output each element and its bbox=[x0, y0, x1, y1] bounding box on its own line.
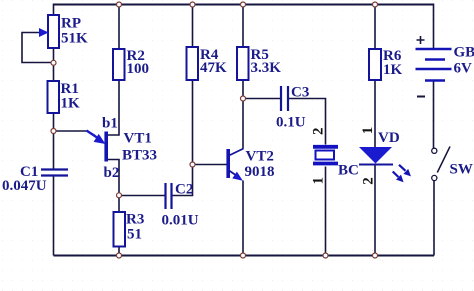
svg-text:6V: 6V bbox=[454, 61, 473, 77]
pin 1 of VD bbox=[360, 127, 376, 135]
wire VT1 b2 down bbox=[107, 160, 119, 196]
node R3 bottom bbox=[117, 253, 122, 258]
wire RP top bbox=[53, 4, 55, 16]
node R4 base junction bbox=[190, 162, 195, 167]
wire node to R3 bbox=[118, 196, 120, 213]
wire node to VT2 collector bbox=[242, 99, 244, 149]
node VD bottom bbox=[373, 253, 378, 258]
svg-text:51K: 51K bbox=[61, 31, 88, 47]
svg-text:0.047U: 0.047U bbox=[2, 178, 47, 194]
svg-text:VT1: VT1 bbox=[124, 131, 152, 147]
pin 1 of BC bbox=[310, 177, 326, 185]
resistor R2 bbox=[113, 48, 149, 80]
svg-text:GB: GB bbox=[454, 45, 474, 61]
svg-text:1K: 1K bbox=[383, 62, 403, 78]
svg-text:47K: 47K bbox=[200, 60, 227, 76]
node R2 top bbox=[117, 2, 122, 7]
wire VT1 emitter bbox=[54, 131, 96, 136]
wire VT1 b1 to R2 bbox=[107, 80, 119, 135]
svg-text:BT33: BT33 bbox=[122, 148, 157, 164]
node RP R1 junction bbox=[51, 60, 56, 65]
wire node to C2 left bbox=[119, 195, 165, 197]
LED VD bbox=[359, 130, 411, 182]
wire switch to bottom rail bbox=[433, 181, 435, 256]
svg-text:1: 1 bbox=[360, 127, 376, 135]
buzzer BC bbox=[313, 147, 359, 179]
svg-text:51: 51 bbox=[127, 227, 142, 243]
svg-text:2: 2 bbox=[360, 177, 376, 185]
wire C2 right to R4 column bbox=[173, 165, 193, 196]
transistor VT2 bbox=[228, 149, 274, 181]
capacitor C3 bbox=[276, 85, 309, 131]
wire R4 bottom to node bbox=[192, 80, 194, 165]
wire R5 top bbox=[242, 5, 244, 50]
wire RP bottom to node bbox=[53, 48, 55, 81]
wire VD to bottom rail bbox=[374, 165, 376, 256]
svg-text:C3: C3 bbox=[291, 85, 309, 101]
resistor R4 bbox=[187, 47, 228, 80]
svg-text:2: 2 bbox=[310, 128, 326, 136]
svg-text:0.01U: 0.01U bbox=[162, 213, 199, 229]
node R4 top bbox=[190, 2, 195, 7]
wire R2 top bbox=[118, 5, 120, 50]
svg-text:0.1U: 0.1U bbox=[276, 115, 306, 131]
switch SW bbox=[432, 147, 473, 181]
svg-text:R3: R3 bbox=[126, 212, 144, 228]
resistor R6 bbox=[369, 48, 403, 80]
wire R5 bottom to node bbox=[242, 80, 244, 99]
capacitor C2 bbox=[162, 182, 199, 229]
resistor R1 bbox=[48, 81, 81, 113]
node R5 collector C3 junction bbox=[241, 96, 246, 101]
svg-text:1: 1 bbox=[310, 177, 326, 185]
resistor R3 bbox=[114, 212, 145, 247]
battery GB bbox=[416, 36, 474, 97]
wire node to C1 bbox=[53, 131, 55, 169]
svg-text:BC: BC bbox=[338, 163, 359, 179]
node R5 top bbox=[241, 2, 246, 7]
capacitor C1 bbox=[2, 164, 68, 194]
node b2 R3 C2 junction bbox=[117, 193, 122, 198]
wire top rail bbox=[53, 4, 434, 6]
wire battery top bbox=[433, 4, 435, 49]
wire node to C3 left bbox=[243, 98, 280, 100]
svg-text:3.3K: 3.3K bbox=[251, 60, 282, 76]
svg-text:RP: RP bbox=[61, 16, 81, 32]
svg-text:VD: VD bbox=[378, 130, 400, 146]
wire bottom rail bbox=[54, 255, 435, 257]
wire R6 top bbox=[374, 5, 376, 50]
node R1 C1 emitter junction bbox=[51, 129, 56, 134]
wire R1 bottom to node bbox=[53, 113, 55, 131]
wire battery to switch bbox=[433, 81, 435, 148]
wire VT2 base bbox=[193, 164, 228, 166]
node VT2 emitter bottom bbox=[241, 253, 246, 258]
pin 2 of BC bbox=[310, 128, 326, 136]
wire C3 right to BC bbox=[289, 99, 326, 145]
wire R3 to bottom rail bbox=[118, 247, 120, 256]
pin 2 of VD bbox=[360, 177, 376, 185]
svg-text:100: 100 bbox=[127, 61, 150, 77]
wire R4 top bbox=[192, 5, 194, 48]
svg-text:9018: 9018 bbox=[245, 164, 275, 180]
resistor R5 bbox=[237, 47, 281, 80]
svg-text:SW: SW bbox=[450, 161, 473, 177]
transistor VT1 bbox=[87, 116, 158, 182]
node R6 top bbox=[373, 2, 378, 7]
wire BC to bottom rail bbox=[325, 167, 327, 256]
node BC bottom bbox=[323, 253, 328, 258]
wire VT2 emitter to bottom rail bbox=[242, 181, 244, 256]
potentiometer RP bbox=[39, 15, 88, 48]
svg-text:1K: 1K bbox=[61, 96, 81, 112]
wire C1 to bottom rail bbox=[53, 175, 55, 256]
svg-text:C2: C2 bbox=[175, 182, 193, 198]
svg-text:b1: b1 bbox=[102, 116, 118, 132]
wire R6 to VD bbox=[374, 80, 376, 147]
wire RP wiper loop bbox=[22, 33, 52, 63]
svg-text:b2: b2 bbox=[104, 165, 120, 181]
svg-text:VT2: VT2 bbox=[246, 149, 274, 165]
